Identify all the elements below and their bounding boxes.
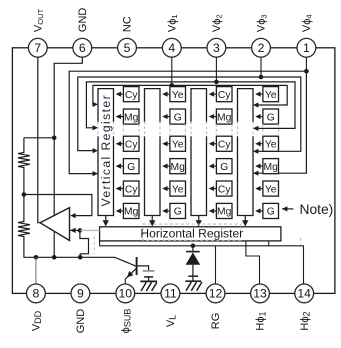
chip outline box (12, 48, 335, 294)
svg-text:G: G (267, 207, 275, 218)
svg-text:Cy: Cy (125, 90, 138, 101)
photodiode cell Cy col3 row3 (209, 136, 232, 151)
break marks col2 (169, 124, 171, 136)
photodiode cell Cy col1 row1 (116, 87, 139, 102)
svg-text:4: 4 (168, 41, 175, 55)
gray wire to horizontal register (81, 229, 100, 231)
svg-text:Mg: Mg (124, 112, 139, 123)
pin 10 circle (116, 284, 135, 303)
svg-text:7: 7 (34, 41, 41, 55)
pin 2 circle (252, 38, 271, 57)
svg-text:NC: NC (122, 16, 134, 32)
svg-text:Vertical Register: Vertical Register (99, 94, 113, 207)
svg-text:5: 5 (124, 41, 131, 55)
photodiode cell Mg col3 row6 (209, 203, 232, 218)
svg-text:RG: RG (210, 313, 222, 330)
wire pin1 Vphi4 stub (305, 57, 307, 71)
vertical register column U1 (98, 89, 114, 227)
svg-text:Cy: Cy (218, 184, 231, 195)
photodiode cell G col3 row4 (209, 159, 232, 174)
svg-text:G: G (267, 112, 275, 123)
node diode tap (191, 244, 196, 249)
break marks col4 (262, 124, 264, 136)
junction on Vphi bus (259, 75, 264, 80)
wire pin2 Vphi3 stub (260, 57, 262, 77)
photodiode cell Ye col4 row1 (255, 87, 278, 102)
photodiode cell G col2 row2 (162, 109, 185, 124)
op-amp U5 output amplifier (40, 208, 70, 241)
svg-text:G: G (220, 162, 228, 173)
gray dashed annotation box (143, 224, 241, 240)
svg-text:3: 3 (213, 41, 220, 55)
pin 9 circle (71, 284, 90, 303)
photodiode cell Mg col4 row4 (255, 159, 278, 174)
junction on Vphi bus (214, 80, 219, 85)
pin 5 circle (118, 38, 137, 57)
junction on Vphi bus (170, 83, 175, 88)
wire reset line to pin14 (100, 241, 304, 284)
junction on Vphi bus (304, 69, 309, 74)
wire pin7 Vout to amplifier output (38, 57, 40, 223)
capacitor / ground for Q1 (140, 271, 157, 291)
pin 1 circle (297, 38, 316, 57)
photodiode cell Cy col1 row5 (116, 181, 139, 196)
svg-text:1: 1 (303, 41, 310, 55)
svg-text:Ye: Ye (265, 90, 277, 101)
photodiode cell G col4 row6 (255, 203, 278, 218)
photodiode cell Mg col1 row6 (116, 203, 139, 218)
diode D1 (186, 246, 201, 281)
vertical register column U3 (191, 89, 207, 227)
wire pin4 Vphi1 stub (171, 57, 173, 85)
svg-text:GND: GND (77, 8, 89, 33)
svg-text:11: 11 (164, 287, 177, 301)
svg-text:VL: VL (165, 315, 178, 327)
wire Vphi1 clock bus (93, 85, 287, 105)
node rail-pin8 (34, 255, 39, 260)
pin 7 circle (28, 38, 47, 57)
photodiode cell Mg col1 row2 (116, 109, 139, 124)
break marks col3 (215, 124, 217, 136)
svg-text:9: 9 (77, 287, 84, 301)
svg-text:Hϕ1: Hϕ1 (255, 311, 268, 330)
photodiode cell Ye col2 row1 (162, 87, 185, 102)
vertical register column U4 (238, 89, 254, 227)
node rail-gnd (52, 255, 57, 260)
wire amp input bias path (80, 230, 89, 257)
svg-text:Cy: Cy (125, 184, 138, 195)
gray mark right of horizontal register (300, 238, 302, 245)
pin 12 circle (206, 284, 225, 303)
photodiode cell Cy col3 row5 (209, 181, 232, 196)
svg-text:6: 6 (79, 41, 86, 55)
svg-text:12: 12 (209, 287, 223, 301)
transistor Q1 substrate clamp (125, 257, 148, 284)
svg-text:G: G (174, 207, 182, 218)
pin 8 circle (27, 284, 46, 303)
amp lower input wire (70, 229, 80, 231)
node R1/R2 junction (22, 192, 27, 197)
svg-text:ϕSUB: ϕSUB (120, 309, 133, 334)
wire feedback to amp upper input (24, 195, 92, 216)
pin 11 circle (161, 284, 180, 303)
break marks col1 (122, 124, 124, 136)
photodiode cell G col1 row4 (116, 159, 139, 174)
horizontal register (100, 227, 281, 241)
wire pin6 GND down left side (54, 57, 82, 257)
node rail-amp (78, 255, 83, 260)
svg-text:14: 14 (297, 287, 311, 301)
photodiode cell Ye col4 row3 (255, 136, 278, 151)
svg-text:Mg: Mg (264, 162, 279, 173)
svg-text:10: 10 (119, 287, 133, 301)
svg-text:Ye: Ye (172, 139, 184, 150)
svg-text:VDD: VDD (31, 310, 44, 331)
pin 6 circle (73, 38, 92, 57)
svg-text:Note): Note) (300, 202, 334, 217)
svg-text:2: 2 (258, 41, 265, 55)
svg-text:Ye: Ye (265, 139, 277, 150)
wire Vphi4 clock bus (69, 71, 306, 173)
pin 13 circle (251, 284, 270, 303)
svg-text:Cy: Cy (125, 139, 138, 150)
wire pin12 RG stub (215, 246, 217, 284)
photodiode cell Ye col4 row5 (255, 181, 278, 196)
svg-text:Cy: Cy (218, 90, 231, 101)
pin 14 circle (295, 284, 314, 303)
wire pin3 Vphi2 stub (215, 57, 217, 82)
photodiode cell Cy col1 row3 (116, 136, 139, 151)
svg-text:13: 13 (253, 287, 267, 301)
photodiode cell G col4 row2 (255, 109, 278, 124)
pin 3 circle (207, 38, 226, 57)
pin 4 circle (162, 38, 181, 57)
svg-text:G: G (127, 162, 135, 173)
svg-text:Cy: Cy (218, 139, 231, 150)
svg-text:Mg: Mg (217, 112, 232, 123)
svg-text:Mg: Mg (171, 162, 186, 173)
note arrow (282, 208, 293, 210)
resistor R2 (23, 195, 25, 220)
wire pin8 Vdd stub (35, 257, 37, 284)
photodiode cell Ye col2 row3 (162, 136, 185, 151)
vertical register column U2 (145, 89, 161, 227)
wire HR tap for pin14 (268, 241, 270, 246)
photodiode cell Mg col2 row4 (162, 159, 185, 174)
svg-text:Ye: Ye (172, 184, 184, 195)
svg-text:Ye: Ye (172, 90, 184, 101)
svg-text:Mg: Mg (217, 207, 232, 218)
wire R2 to supply rail (24, 240, 137, 267)
photodiode cell Ye col2 row5 (162, 181, 185, 196)
svg-text:G: G (174, 112, 182, 123)
svg-text:8: 8 (33, 287, 40, 301)
svg-text:Horizontal Register: Horizontal Register (140, 227, 243, 241)
svg-text:Hϕ2: Hϕ2 (299, 311, 312, 330)
wire Vphi2 clock bus (86, 82, 295, 128)
svg-text:Mg: Mg (124, 207, 139, 218)
photodiode cell Cy col3 row1 (209, 87, 232, 102)
photodiode cell G col2 row6 (162, 203, 185, 218)
svg-text:GND: GND (75, 309, 87, 334)
wire Vphi3 clock bus (78, 77, 301, 151)
gray mark left of horizontal register (93, 237, 95, 254)
svg-text:Ye: Ye (265, 184, 277, 195)
resistor R1 (23, 138, 25, 151)
ground for D1 (185, 276, 202, 291)
wire pin13 Hphi1 (246, 241, 260, 284)
photodiode cell Mg col3 row2 (209, 109, 232, 124)
node R1 top branch (52, 136, 57, 141)
